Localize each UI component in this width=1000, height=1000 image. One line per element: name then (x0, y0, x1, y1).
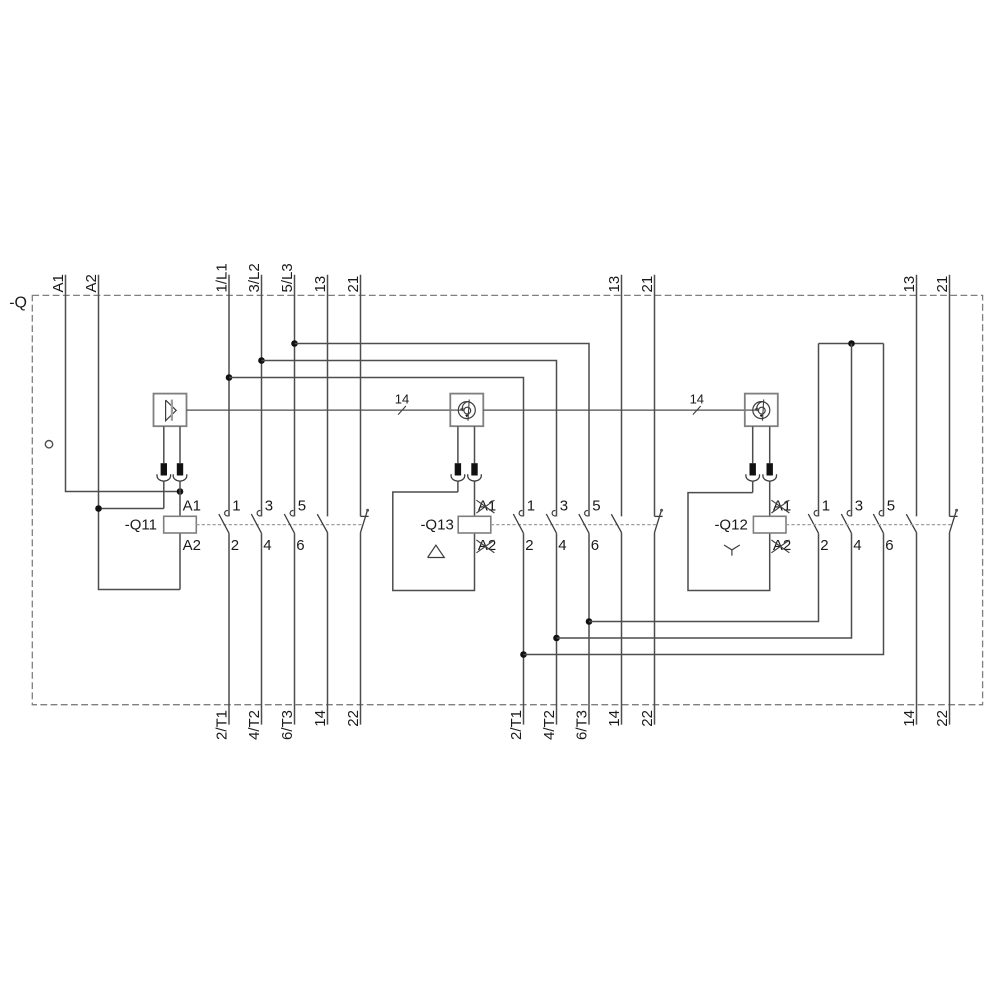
svg-text:14: 14 (395, 391, 409, 406)
contact blade -Q12 1/2 (808, 514, 818, 533)
aux NC contact tip dot -Q13 21/22 (660, 509, 663, 512)
plug socket -Q13 right (468, 474, 482, 481)
wire A2 branch to module plug (99, 508, 164, 510)
terminal label A2 -Q13 (crossed out) (476, 537, 496, 554)
power line contact 3 upper (-Q12) (851, 344, 853, 517)
wire coil -Q11 A2 to loop (179, 533, 181, 590)
wire delta link T2 to -Q12 contact 3 (557, 533, 852, 638)
svg-text:1/L1: 1/L1 (214, 263, 231, 292)
svg-text:6: 6 (591, 537, 599, 554)
power line contact 5 upper (-Q12) (883, 344, 885, 517)
wire break slash (right) (693, 406, 701, 415)
plug pin -Q13 left (455, 463, 461, 475)
svg-text:-Q11: -Q11 (125, 516, 157, 533)
wire module -Q13 to module -Q12 (483, 409, 745, 411)
junction star point (848, 340, 855, 347)
aux NO contact blade -Q13 13/14 (611, 514, 621, 532)
aux NC contact bar -Q12 21/22 (950, 515, 958, 517)
svg-text:2/T1: 2/T1 (508, 710, 525, 740)
svg-text:A2: A2 (83, 274, 100, 292)
power line 1/L1 upper (228, 275, 230, 517)
svg-text:22: 22 (345, 710, 362, 727)
svg-text:14: 14 (606, 710, 623, 727)
wire 5/L3 to -Q13 contact 5 (295, 344, 590, 517)
svg-text:2/T1: 2/T1 (214, 710, 231, 740)
contact blade -Q11 5/6 (284, 514, 294, 533)
junction 3/L2 branch (258, 357, 265, 364)
svg-text:4: 4 (263, 537, 271, 554)
aux NC contact tip dot -Q12 21/22 (955, 509, 958, 512)
contact arc -Q13 1/2 (519, 511, 523, 516)
aux line 14 lower (-Q13) (621, 533, 623, 725)
function module box -Q11 (154, 394, 187, 427)
svg-text:1: 1 (822, 497, 830, 514)
wire delta link T1 to -Q12 contact 5 (524, 533, 884, 654)
contact blade -Q13 3/4 (546, 514, 556, 533)
aux line 21 upper (-Q11) (360, 275, 362, 517)
contact arc -Q12 1/2 (814, 511, 818, 516)
terminal label A1 -Q13 (crossed out) (476, 497, 496, 514)
contact blade -Q12 5/6 (873, 514, 883, 533)
svg-text:13: 13 (901, 276, 918, 293)
plug socket -Q12 right (763, 474, 777, 481)
wire module -Q11 right pin (179, 426, 181, 463)
module diode triangle (166, 400, 177, 421)
svg-text:5: 5 (298, 497, 306, 514)
aux NC contact blade -Q13 21/22 (655, 511, 662, 533)
contact arc -Q13 3/4 (552, 511, 556, 516)
module box -Q12 (timer) (745, 394, 778, 427)
svg-text:3: 3 (560, 497, 568, 514)
svg-text:2: 2 (231, 537, 239, 554)
svg-text:2: 2 (525, 537, 533, 554)
power line 4/T2 lower (261, 533, 263, 724)
wire loop -Q13 A2 (393, 492, 475, 591)
svg-text:14: 14 (901, 710, 918, 727)
junction delta node 6/T3 (586, 618, 593, 625)
svg-text:22: 22 (934, 710, 951, 727)
contact arc -Q12 5/6 (879, 511, 883, 516)
plug socket -Q12 left (746, 474, 760, 481)
terminal label A2 -Q12 (crossed out) (771, 537, 791, 554)
junction 1/L1 branch (226, 374, 233, 381)
plug socket -Q11 right (173, 474, 187, 481)
plug pin -Q13 right (471, 463, 477, 475)
power line 6/T3 lower (294, 533, 296, 724)
wire 3/L2 to -Q13 contact 3 (262, 361, 557, 517)
plug socket -Q11 left (157, 474, 171, 481)
svg-text:4/T2: 4/T2 (541, 710, 558, 740)
svg-text:4: 4 (853, 537, 861, 554)
terminal circle (45, 441, 52, 448)
module timer icon -Q12 (753, 400, 770, 421)
aux line 13 upper (-Q11) (327, 275, 329, 517)
wire plug left -Q12 down (752, 481, 754, 493)
enclosure dashed border -Q (32, 295, 982, 704)
aux line 14 lower (-Q11) (327, 533, 329, 725)
svg-text:5: 5 (887, 497, 895, 514)
aux NC contact bar -Q13 21/22 (655, 515, 663, 517)
wire module -Q13 right pin (474, 426, 476, 463)
contact arc -Q11 3/4 (257, 511, 261, 516)
module box -Q13 (timer) (450, 394, 483, 427)
aux NC contact tip dot -Q11 21/22 (366, 509, 369, 512)
dashed actuation link -Q13 (491, 524, 658, 526)
delta symbol (-Q13) (428, 545, 445, 557)
contact arc -Q13 5/6 (585, 511, 589, 516)
wire A2 terminal down to loop (99, 275, 181, 590)
aux line 14 lower (-Q12) (916, 533, 918, 725)
svg-text:6: 6 (885, 537, 893, 554)
svg-text:3/L2: 3/L2 (246, 263, 263, 292)
dashed actuation link -Q12 (786, 524, 953, 526)
wire plug right -Q13 to coil A1 (474, 481, 476, 516)
plug pin -Q11 left (161, 463, 167, 475)
wire break slash (left) (398, 406, 406, 415)
svg-text:22: 22 (639, 710, 656, 727)
svg-text:21: 21 (934, 276, 951, 293)
svg-text:3: 3 (265, 497, 273, 514)
junction A2 branch (95, 505, 102, 512)
dashed actuation link -Q11 (196, 524, 363, 526)
wire module -Q12 left pin (752, 426, 754, 463)
contact arc -Q11 5/6 (290, 511, 294, 516)
aux NO contact blade -Q11 13/14 (317, 514, 327, 532)
plug pin -Q12 left (750, 463, 756, 475)
power line 5/L3 upper (294, 275, 296, 517)
svg-text:13: 13 (606, 276, 623, 293)
junction 5/L3 branch (291, 340, 298, 347)
contactor coil -Q11 (164, 516, 197, 533)
contact blade -Q11 1/2 (219, 514, 229, 533)
svg-text:2: 2 (820, 537, 828, 554)
svg-text:4/T2: 4/T2 (246, 710, 263, 740)
svg-text:3: 3 (855, 497, 863, 514)
wire module -Q11 to module -Q13 (187, 409, 451, 411)
aux line 13 upper (-Q12) (916, 275, 918, 517)
svg-text:-Q12: -Q12 (714, 516, 747, 533)
junction delta node 4/T2 (553, 635, 560, 642)
wire loop -Q12 A2 (688, 493, 770, 591)
aux line 22 lower (-Q13) (654, 533, 656, 725)
wire plug left -Q13 down (457, 481, 459, 492)
module -Q12 internal stub (746, 409, 758, 411)
contactor coil -Q13 (458, 516, 491, 533)
module diode bar (171, 400, 173, 421)
wire plug right -Q12 to coil A1 (769, 481, 771, 516)
module timer icon -Q13 (458, 400, 475, 421)
aux NC contact blade -Q12 21/22 (950, 511, 957, 533)
wire plug left to A2 branch (163, 481, 165, 508)
svg-text:21: 21 (639, 276, 656, 293)
contact blade -Q12 3/4 (841, 514, 851, 533)
plug pin -Q11 right (177, 463, 183, 475)
svg-text:6/T3: 6/T3 (574, 710, 591, 740)
aux line 13 upper (-Q13) (621, 275, 623, 517)
contact blade -Q13 1/2 (513, 514, 523, 533)
wire A1 terminal to coil -Q11 (66, 275, 181, 492)
contact blade -Q13 5/6 (579, 514, 589, 533)
contactor coil -Q12 (753, 516, 786, 533)
wire 1/L1 to -Q13 contact 1 (229, 378, 524, 517)
wire delta link T3 to -Q12 contact 1 (589, 533, 819, 621)
svg-text:-Q13: -Q13 (420, 516, 453, 533)
aux line 22 lower (-Q12) (949, 533, 951, 725)
wire plug right to coil A1 (179, 481, 181, 516)
svg-text:A1: A1 (183, 497, 201, 514)
svg-text:1: 1 (527, 497, 535, 514)
svg-text:6/T3: 6/T3 (279, 710, 296, 740)
wire star bridge (-Q12) (819, 343, 884, 345)
aux NC contact bar -Q11 21/22 (361, 515, 369, 517)
power line contact 1 upper (-Q12) (818, 344, 820, 517)
power line 2/T1 lower (228, 533, 230, 724)
svg-text:A2: A2 (183, 537, 201, 554)
junction coil A1 node (177, 488, 184, 495)
power line 3/L2 upper (261, 275, 263, 517)
svg-text:1: 1 (232, 497, 240, 514)
star symbol (-Q12) (724, 545, 740, 556)
plug socket -Q13 left (451, 474, 465, 481)
svg-text:21: 21 (345, 276, 362, 293)
aux line 21 upper (-Q12) (949, 275, 951, 517)
svg-text:13: 13 (312, 276, 329, 293)
power line 2/T1 lower (-Q13) (523, 533, 525, 724)
svg-text:A1: A1 (50, 274, 67, 292)
wire module -Q12 right pin (769, 426, 771, 463)
power line 4/T2 lower (-Q13) (556, 533, 558, 724)
svg-text:-Q: -Q (9, 295, 27, 312)
svg-text:5: 5 (592, 497, 600, 514)
aux NC contact blade -Q11 21/22 (361, 511, 368, 533)
terminal label A1 -Q12 (crossed out) (771, 497, 791, 514)
svg-text:6: 6 (296, 537, 304, 554)
junction delta node 2/T1 (520, 651, 527, 658)
contact arc -Q11 1/2 (225, 511, 229, 516)
aux NO contact blade -Q12 13/14 (906, 514, 916, 532)
contact blade -Q11 3/4 (251, 514, 261, 533)
svg-text:14: 14 (312, 710, 329, 727)
contact arc -Q12 3/4 (847, 511, 851, 516)
svg-text:4: 4 (558, 537, 566, 554)
plug pin -Q12 right (767, 463, 773, 475)
wire module -Q11 left pin (163, 426, 165, 463)
module -Q13 internal stub (451, 409, 463, 411)
aux line 22 lower (-Q11) (360, 533, 362, 725)
power line 6/T3 lower (-Q13) (588, 533, 590, 724)
svg-text:14: 14 (690, 391, 704, 406)
svg-text:5/L3: 5/L3 (279, 263, 296, 292)
aux line 21 upper (-Q13) (654, 275, 656, 517)
wire module -Q13 left pin (457, 426, 459, 463)
